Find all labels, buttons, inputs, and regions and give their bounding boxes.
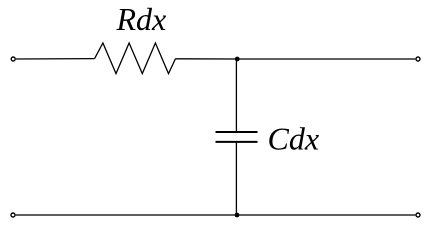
wire top-right segment: [237, 58, 415, 60]
terminal bottom-left: [11, 213, 15, 217]
capacitor C (Cdx): [216, 132, 258, 142]
wire bottom: [16, 214, 416, 216]
wire top-left segment: [16, 58, 95, 60]
junction node bottom: [235, 213, 240, 218]
junction node top: [235, 57, 240, 62]
wire top-middle segment: [176, 58, 238, 60]
wire capacitor upper lead: [235, 59, 237, 132]
svg-text:Rdx: Rdx: [116, 1, 167, 37]
svg-text:Cdx: Cdx: [268, 120, 320, 156]
wire capacitor lower lead: [235, 142, 237, 215]
resistor R (Rdx): [95, 43, 176, 74]
terminal top-right: [416, 57, 420, 61]
terminal bottom-right: [416, 213, 420, 217]
terminal top-left: [11, 57, 15, 61]
